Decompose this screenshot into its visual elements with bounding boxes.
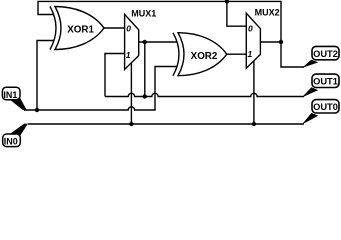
svg-text:XOR2: XOR2 xyxy=(191,51,218,62)
wire: MUX2 output to right riser xyxy=(260,41,281,43)
svg-text:0: 0 xyxy=(126,24,131,34)
svg-text:OUT0: OUT0 xyxy=(313,102,338,112)
port tag IN1 xyxy=(2,87,26,110)
wire: MUX2 hold feedback drop to MUX2 input 0 xyxy=(227,1,247,26)
xor gate XOR2 xyxy=(173,33,227,76)
xor gate XOR1 xyxy=(50,7,104,50)
node: junction MUX2 select on IN0 net xyxy=(252,122,256,126)
port tag IN0 xyxy=(3,124,28,147)
port tag OUT2 xyxy=(302,46,339,68)
svg-text:OUT1: OUT1 xyxy=(313,77,338,87)
wire: IN1 net with hop over MUX1 select, rising to XOR2 bottom input xyxy=(24,67,178,111)
svg-text:0: 0 xyxy=(248,23,253,33)
port tag OUT1 xyxy=(302,74,339,97)
wire: IN0 net from IN0 tag to OUT0 tag xyxy=(28,123,304,125)
wire: XOR1 bottom input tap from IN1 net xyxy=(37,41,54,111)
wire: branch from MUX2 output down to OUT2 tag xyxy=(281,42,304,67)
wire: MUX1 output to XOR2 top input xyxy=(139,41,178,43)
node: junction on top wire at MUX2 feedback xyxy=(225,0,229,4)
svg-text:XOR1: XOR1 xyxy=(67,24,94,35)
wire: top feedback net from MUX2 output to XOR1 top input xyxy=(38,1,281,42)
wire: MUX2 select line down to IN0 net xyxy=(253,60,255,124)
svg-text:OUT2: OUT2 xyxy=(313,49,338,59)
wire: MUX1 select line down to IN0 net xyxy=(130,62,132,124)
wire: XOR1 output to MUX1 input 0 xyxy=(104,27,125,29)
node: junction on IN1 wire at XOR1 tap xyxy=(35,108,39,112)
svg-text:1: 1 xyxy=(248,49,253,59)
svg-text:IN1: IN1 xyxy=(3,90,17,100)
wire: MUX1 output drop to BUS1 xyxy=(144,42,146,97)
port tag OUT0 xyxy=(302,100,339,125)
svg-text:MUX1: MUX1 xyxy=(131,9,156,19)
wire: MUX1 feedback from BUS1 up to MUX1 input 1 xyxy=(105,54,125,97)
wire: BUS1 MUX1-output net with hops, to OUT1 tag xyxy=(105,93,304,96)
node: junction MUX1 select on IN0 net xyxy=(129,122,133,126)
node: junction at MUX2 output T xyxy=(279,40,283,44)
node: junction at MUX1 output T xyxy=(143,40,147,44)
svg-text:IN0: IN0 xyxy=(4,136,18,146)
wire: XOR2 output to MUX2 input 1 xyxy=(227,53,247,55)
svg-text:MUX2: MUX2 xyxy=(255,7,280,17)
node: junction of MUX1 output drop on BUS1 xyxy=(143,94,147,98)
mux U1 MUX1 trapezoid xyxy=(125,9,157,70)
svg-text:1: 1 xyxy=(126,50,131,60)
mux U2 MUX2 trapezoid xyxy=(246,7,279,68)
